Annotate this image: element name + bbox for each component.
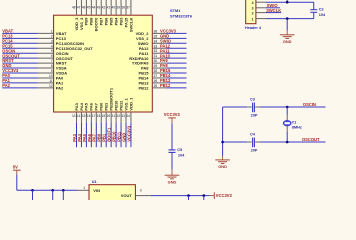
- IC STM1 STM32C8T6 body: [54, 15, 153, 112]
- junction: [221, 141, 224, 144]
- svg-text:PA4: PA4: [77, 133, 82, 141]
- svg-text:PC13: PC13: [56, 36, 67, 41]
- pin 3 U1 VOUT: [135, 195, 151, 197]
- pin 2 P1: [256, 12, 266, 14]
- svg-text:PB12: PB12: [160, 83, 171, 88]
- wire OSCIN left segment: [223, 106, 248, 108]
- svg-text:PC15: PC15: [2, 43, 13, 48]
- svg-text:PA9: PA9: [160, 58, 168, 63]
- svg-text:PB11: PB11: [118, 100, 123, 111]
- wire OSCIN right segment: [260, 106, 326, 108]
- svg-text:PC14: PC14: [2, 38, 13, 43]
- svg-text:GND: GND: [160, 33, 169, 38]
- wire net OSCIN left pin 5: [2, 52, 37, 54]
- svg-text:42: 42: [102, 6, 106, 10]
- pin 19 STM1 bottom: [105, 112, 107, 123]
- pin 1 U1 VIN: [77, 189, 89, 191]
- svg-text:VBAT: VBAT: [2, 29, 13, 34]
- svg-text:PB13: PB13: [138, 81, 149, 86]
- wire stub cap below: [62, 190, 64, 200]
- svg-text:37: 37: [126, 6, 130, 10]
- svg-text:C3: C3: [250, 97, 255, 101]
- wire net PC13 left pin 2: [2, 37, 37, 39]
- pin 29 STM1: [152, 67, 166, 69]
- svg-text:PA10: PA10: [160, 53, 171, 58]
- svg-text:PA3: PA3: [72, 133, 77, 141]
- svg-text:18: 18: [97, 114, 101, 118]
- svg-text:34: 34: [154, 39, 158, 43]
- svg-text:VOUT: VOUT: [121, 193, 133, 198]
- pin 46 STM1 top: [85, 0, 87, 15]
- pin 14 STM1 bottom: [80, 112, 82, 123]
- wire net PA8 right pin 29: [166, 67, 186, 69]
- pin 32 STM1: [152, 52, 166, 54]
- pin crystal top: [286, 115, 288, 121]
- wire net PA4 bottom pin 14: [80, 123, 82, 148]
- wire net SWCLK: [266, 12, 281, 14]
- svg-text:VSS_1: VSS_1: [123, 97, 128, 110]
- pin 11 STM1: [38, 82, 54, 84]
- svg-text:32: 32: [154, 49, 158, 53]
- junction: [51, 189, 54, 192]
- svg-text:24: 24: [126, 114, 130, 118]
- pin 31 STM1: [152, 57, 166, 59]
- junction: [286, 17, 289, 20]
- svg-text:20P: 20P: [251, 114, 258, 118]
- lead C3 left: [247, 106, 252, 108]
- svg-text:47: 47: [77, 6, 81, 10]
- pin 4 STM1: [38, 47, 54, 49]
- svg-text:VBAT: VBAT: [56, 31, 67, 36]
- svg-text:5: 5: [51, 49, 53, 53]
- pin 17 STM1 bottom: [95, 112, 97, 123]
- svg-text:PB1: PB1: [104, 102, 109, 111]
- wire net PB0 bottom pin 18: [100, 123, 102, 148]
- svg-text:TXD/PA9: TXD/PA9: [132, 61, 149, 66]
- svg-text:1: 1: [51, 29, 53, 33]
- svg-text:PB10: PB10: [113, 100, 118, 111]
- wire net PB12 right pin 25: [166, 87, 186, 89]
- pin 35 STM1: [152, 37, 166, 39]
- ground GND header: [286, 30, 288, 35]
- wire 5V down: [16, 174, 18, 190]
- wire net PB15 right pin 28: [166, 72, 186, 74]
- pin 44 STM1 top: [95, 0, 97, 15]
- crystal Y1: [283, 120, 291, 126]
- svg-text:5V: 5V: [13, 165, 18, 170]
- junction: [187, 194, 190, 197]
- pin 47 STM1 top: [80, 0, 82, 15]
- pin 1 STM1: [38, 32, 54, 34]
- wire net PC15 left pin 4: [2, 47, 37, 49]
- svg-text:22: 22: [117, 114, 121, 118]
- svg-text:VCC3V3: VCC3V3: [164, 112, 181, 117]
- junction: [203, 194, 206, 197]
- pin 28 STM1: [152, 72, 166, 74]
- svg-text:VSSA: VSSA: [56, 66, 67, 71]
- junction: [286, 106, 289, 109]
- svg-text:OSCIN: OSCIN: [2, 48, 15, 53]
- pin 2 STM1: [38, 37, 54, 39]
- wire C2 top lead: [313, 2, 315, 10]
- svg-text:40: 40: [112, 6, 116, 10]
- svg-text:PB8: PB8: [89, 17, 94, 26]
- svg-text:U1: U1: [92, 180, 97, 184]
- svg-text:PB12: PB12: [138, 85, 149, 90]
- wire to GND: [286, 19, 288, 31]
- pin 40 STM1 top: [115, 0, 117, 15]
- svg-text:VSS_2: VSS_2: [136, 36, 149, 41]
- pin 18 STM1 bottom: [100, 112, 102, 123]
- wire net GND bottom pin 23: [125, 123, 127, 148]
- wire stub cap below: [32, 190, 34, 200]
- wire OSCOUT left segment: [223, 141, 248, 143]
- svg-text:PA8: PA8: [160, 63, 168, 68]
- wire stub cap below: [188, 196, 190, 200]
- svg-text:26: 26: [154, 79, 158, 83]
- svg-text:14: 14: [77, 114, 81, 118]
- wire net SWIO: [266, 7, 280, 9]
- svg-text:PB6: PB6: [104, 17, 109, 26]
- svg-text:PB5: PB5: [108, 17, 113, 26]
- capacitor C4: [252, 138, 254, 148]
- wire net GND header pin1: [266, 18, 314, 20]
- svg-text:Header 4: Header 4: [245, 26, 262, 30]
- wire net PA3 bottom pin 13: [76, 123, 78, 148]
- wire OSCOUT right segment: [260, 141, 326, 143]
- svg-text:VDD_2: VDD_2: [136, 31, 150, 36]
- svg-text:PC14/OSC32IN: PC14/OSC32IN: [56, 41, 84, 46]
- svg-text:GND: GND: [121, 133, 126, 142]
- pin 38 STM1 top: [125, 0, 127, 15]
- svg-text:PB0: PB0: [97, 133, 102, 142]
- svg-text:28: 28: [154, 69, 158, 73]
- power port VCC3V3 output: [209, 195, 214, 197]
- regulator U1 body: [89, 185, 135, 201]
- svg-text:PA2: PA2: [56, 85, 64, 90]
- pin 16 STM1 bottom: [90, 112, 92, 123]
- wire net OSCOUT left pin 6: [2, 57, 37, 59]
- connector P1 Header 4 body: [246, 0, 256, 24]
- wire net PC14 left pin 3: [2, 42, 37, 44]
- svg-text:NRST: NRST: [2, 58, 14, 63]
- wire stub cap below: [203, 196, 205, 200]
- svg-text:4: 4: [51, 44, 53, 48]
- svg-text:PB0: PB0: [99, 102, 104, 111]
- svg-text:16: 16: [87, 114, 91, 118]
- svg-text:Y1: Y1: [292, 120, 297, 124]
- svg-text:45: 45: [87, 6, 91, 10]
- wire net VCC3V3 header pin4: [266, 1, 314, 3]
- svg-text:PB11: PB11: [116, 131, 121, 142]
- wire net PB1 bottom pin 19: [105, 123, 107, 148]
- svg-text:VDD_3: VDD_3: [74, 17, 79, 31]
- svg-text:PB2/BOOT1: PB2/BOOT1: [108, 87, 113, 110]
- svg-text:VDD_1: VDD_1: [128, 97, 133, 111]
- svg-text:PA8: PA8: [141, 66, 149, 71]
- wire net PA2 left pin 12: [2, 87, 37, 89]
- svg-text:GND: GND: [2, 63, 11, 68]
- svg-text:VCC3V3: VCC3V3: [126, 125, 131, 142]
- svg-text:PB14: PB14: [138, 76, 149, 81]
- pin 33 STM1: [152, 47, 166, 49]
- pin 6 STM1: [38, 57, 54, 59]
- wire net PA12 right pin 33: [166, 47, 186, 49]
- svg-text:PA15: PA15: [123, 17, 128, 27]
- wire net VCC3V3 bottom pin 24: [130, 123, 132, 148]
- wire VOUT rail: [151, 195, 209, 197]
- pin 21 STM1 bottom: [115, 112, 117, 123]
- svg-text:104: 104: [319, 13, 326, 17]
- pin 25 STM1: [152, 87, 166, 89]
- wire net PB13 right pin 26: [166, 82, 186, 84]
- svg-text:38: 38: [121, 6, 125, 10]
- capacitor C5: [169, 149, 176, 151]
- pin 48 STM1 top: [76, 0, 78, 15]
- svg-text:8: 8: [51, 64, 53, 68]
- svg-text:VIN: VIN: [93, 188, 100, 193]
- svg-text:PB14: PB14: [160, 73, 171, 78]
- svg-text:RXD/PA10: RXD/PA10: [129, 56, 149, 61]
- svg-text:20P: 20P: [251, 149, 258, 153]
- svg-text:BOOT0: BOOT0: [94, 17, 99, 32]
- svg-text:NRST: NRST: [56, 61, 67, 66]
- svg-text:PA5: PA5: [82, 133, 87, 141]
- svg-text:13: 13: [72, 114, 76, 118]
- svg-text:OSCOUT: OSCOUT: [302, 137, 320, 142]
- capacitor C3: [252, 103, 254, 113]
- pin 4 P1: [256, 1, 266, 3]
- pin 45 STM1 top: [90, 0, 92, 15]
- svg-text:SWIO: SWIO: [160, 38, 172, 43]
- svg-text:7: 7: [51, 59, 53, 63]
- wire net SWIO right pin 34: [166, 42, 186, 44]
- svg-text:10: 10: [49, 74, 53, 78]
- svg-text:11: 11: [49, 79, 53, 83]
- svg-text:VSS_3: VSS_3: [79, 17, 84, 30]
- svg-text:SWCLK: SWCLK: [128, 17, 133, 32]
- wire 5V rail: [17, 189, 78, 191]
- svg-text:25: 25: [154, 84, 158, 88]
- svg-text:PA2: PA2: [2, 83, 10, 88]
- svg-text:VDDA: VDDA: [56, 71, 67, 76]
- svg-text:PA6: PA6: [87, 133, 92, 141]
- pin 27 STM1: [152, 77, 166, 79]
- svg-text:23: 23: [121, 114, 125, 118]
- svg-text:OSCIN: OSCIN: [303, 102, 316, 107]
- svg-text:PB15: PB15: [160, 68, 171, 73]
- svg-text:12: 12: [49, 84, 53, 88]
- svg-text:PB9: PB9: [84, 17, 89, 26]
- svg-text:21: 21: [112, 114, 116, 118]
- svg-text:GND: GND: [218, 164, 227, 169]
- svg-text:31: 31: [154, 54, 158, 58]
- svg-text:PA12: PA12: [160, 43, 171, 48]
- wire net GND right pin 35: [166, 37, 186, 39]
- svg-text:PB7: PB7: [99, 17, 104, 26]
- svg-text:2: 2: [51, 34, 53, 38]
- wire stub cap below: [52, 190, 54, 200]
- pin 30 STM1: [152, 62, 166, 64]
- wire stub VCC3V3 from top: [286, 0, 288, 2]
- pin 39 STM1 top: [120, 0, 122, 15]
- pin 42 STM1 top: [105, 0, 107, 15]
- wire VCC3V3 to C5: [171, 123, 173, 150]
- pin 12 STM1: [38, 87, 54, 89]
- svg-text:PA0: PA0: [2, 73, 10, 78]
- svg-text:48: 48: [72, 6, 76, 10]
- svg-text:PC115/OSC32_OUT: PC115/OSC32_OUT: [56, 46, 93, 51]
- wire crystal ground vertical: [222, 107, 224, 156]
- wire net PB11 bottom pin 22: [120, 123, 122, 148]
- svg-text:PB1: PB1: [102, 133, 107, 142]
- svg-text:44: 44: [92, 6, 96, 10]
- wire net NRST left pin 7: [2, 62, 37, 64]
- wire net PB10 bottom pin 21: [115, 123, 117, 148]
- svg-text:PB15: PB15: [138, 71, 149, 76]
- pin 22 STM1 bottom: [120, 112, 122, 123]
- wire crystal bottom lead: [286, 132, 288, 142]
- lead C3 right: [255, 106, 259, 108]
- pin 1 P1: [256, 18, 266, 20]
- svg-text:46: 46: [82, 6, 86, 10]
- svg-text:30: 30: [154, 59, 158, 63]
- lead C4 right: [255, 141, 259, 143]
- junction: [31, 189, 34, 192]
- svg-text:STM32C8T6: STM32C8T6: [170, 14, 193, 19]
- svg-text:6: 6: [51, 54, 53, 58]
- wire net GND left pin 8: [2, 67, 37, 69]
- lead C4 left: [247, 141, 252, 143]
- svg-text:GND: GND: [168, 179, 177, 184]
- pin 13 STM1 bottom: [76, 112, 78, 123]
- svg-text:VCC3V3: VCC3V3: [216, 193, 233, 198]
- svg-text:SWCLK: SWCLK: [266, 8, 281, 13]
- svg-text:OSCOUT: OSCOUT: [56, 56, 74, 61]
- svg-text:PA4: PA4: [79, 102, 84, 110]
- svg-text:20: 20: [107, 114, 111, 118]
- pin 43 STM1 top: [100, 0, 102, 15]
- wire crystal top lead: [286, 107, 288, 115]
- svg-text:PB3: PB3: [118, 17, 123, 26]
- svg-text:4: 4: [252, 1, 254, 5]
- pin 5 STM1: [38, 52, 54, 54]
- pin 36 STM1: [152, 32, 166, 34]
- svg-text:C2: C2: [319, 8, 324, 12]
- svg-text:104: 104: [178, 153, 185, 157]
- wire net PA5 bottom pin 15: [85, 123, 87, 148]
- wire net VBAT left pin 1: [2, 32, 37, 34]
- pin 7 STM1: [38, 62, 54, 64]
- svg-text:1: 1: [252, 17, 254, 21]
- svg-text:15: 15: [82, 114, 86, 118]
- svg-text:PA12: PA12: [139, 46, 149, 51]
- svg-text:PA11: PA11: [139, 51, 149, 56]
- svg-text:PA7: PA7: [94, 102, 99, 110]
- svg-text:VCC3V3: VCC3V3: [2, 68, 19, 73]
- svg-text:PA0: PA0: [56, 76, 64, 81]
- pin 3 P1: [256, 7, 266, 9]
- pin 8 STM1: [38, 67, 54, 69]
- svg-text:PA1: PA1: [2, 78, 10, 83]
- svg-text:19: 19: [102, 114, 106, 118]
- wire net PA7 bottom pin 17: [95, 123, 97, 148]
- svg-text:SWIO: SWIO: [267, 3, 279, 8]
- pin 24 STM1 bottom: [130, 112, 132, 123]
- svg-text:3: 3: [51, 39, 53, 43]
- svg-text:PA1: PA1: [56, 81, 64, 86]
- svg-text:39: 39: [117, 6, 121, 10]
- svg-text:SWIO: SWIO: [138, 41, 149, 46]
- svg-text:36: 36: [154, 29, 158, 33]
- svg-text:GND: GND: [283, 39, 292, 44]
- svg-text:35: 35: [154, 34, 158, 38]
- svg-text:C5: C5: [177, 148, 182, 152]
- svg-text:STM1: STM1: [170, 8, 181, 13]
- junction: [286, 141, 289, 144]
- pin 10 STM1: [38, 77, 54, 79]
- svg-text:PA11: PA11: [160, 48, 170, 53]
- svg-text:17: 17: [92, 114, 96, 118]
- svg-text:PA5: PA5: [84, 102, 89, 110]
- wire net PA0 left pin 10: [2, 77, 37, 79]
- pin 20 STM1 bottom: [110, 112, 112, 123]
- svg-text:PA6: PA6: [89, 102, 94, 110]
- wire net PB14 right pin 27: [166, 77, 186, 79]
- wire net PA6 bottom pin 16: [90, 123, 92, 148]
- wire net PA10 right pin 31: [166, 57, 186, 59]
- svg-text:8MHz: 8MHz: [292, 126, 302, 130]
- wire net BOOT1 bottom pin 20: [110, 123, 112, 148]
- svg-text:OSCIN: OSCIN: [56, 51, 69, 56]
- pin 26 STM1: [152, 82, 166, 84]
- svg-text:3: 3: [140, 188, 142, 192]
- pin 3 STM1: [38, 42, 54, 44]
- pin 37 STM1 top: [130, 0, 132, 15]
- ground GND C5: [171, 170, 173, 176]
- wire C2 bottom lead: [313, 12, 315, 18]
- pin 34 STM1: [152, 42, 166, 44]
- capacitor C2: [310, 9, 317, 11]
- svg-text:2: 2: [252, 11, 254, 15]
- svg-text:29: 29: [154, 64, 158, 68]
- svg-text:BOOT1: BOOT1: [107, 127, 112, 142]
- svg-text:VCC3V3: VCC3V3: [160, 29, 177, 34]
- svg-text:PB10: PB10: [112, 131, 117, 142]
- pin 15 STM1 bottom: [85, 112, 87, 123]
- svg-text:33: 33: [154, 44, 158, 48]
- svg-text:PA3: PA3: [74, 102, 79, 110]
- wire net VCC3V3 left pin 9: [2, 72, 37, 74]
- svg-text:OSCOUT: OSCOUT: [2, 53, 20, 58]
- wire C5 to GND: [171, 152, 173, 169]
- pin 41 STM1 top: [110, 0, 112, 15]
- wire net VCC3V3 right pin 36: [166, 32, 186, 34]
- ground GND crystal: [222, 156, 224, 160]
- pin 23 STM1 bottom: [125, 112, 127, 123]
- svg-text:PB13: PB13: [160, 78, 171, 83]
- svg-text:43: 43: [97, 6, 101, 10]
- svg-text:1: 1: [83, 186, 85, 190]
- svg-text:PA7: PA7: [92, 133, 97, 141]
- junction: [286, 1, 289, 4]
- wire net PA11 right pin 32: [166, 52, 186, 54]
- svg-text:PC13: PC13: [2, 33, 13, 38]
- junction: [62, 189, 65, 192]
- svg-text:9: 9: [51, 69, 53, 73]
- pin crystal bottom: [286, 126, 288, 132]
- svg-text:41: 41: [107, 6, 111, 10]
